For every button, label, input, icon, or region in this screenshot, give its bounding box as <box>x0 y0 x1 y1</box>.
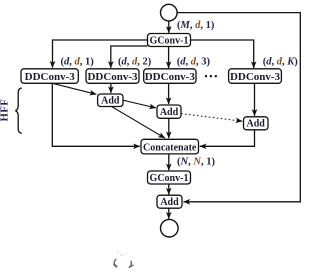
block DDConv-3 branch3 <box>144 69 196 84</box>
wire GConv-1 to DDConv-3 K2 <box>111 46 148 68</box>
wire input circle to GConv-1 <box>168 21 170 33</box>
block Add2 <box>157 105 181 118</box>
node output circle <box>161 219 179 237</box>
svg-text:(M, d, 1): (M, d, 1) <box>177 20 215 31</box>
svg-text:DDConv-3: DDConv-3 <box>25 71 76 83</box>
dots ellipsis <box>205 75 217 77</box>
artifact faint marks bottom <box>114 252 133 268</box>
wire GConv-1 to Add4 <box>168 184 170 194</box>
svg-text:Add: Add <box>101 96 120 107</box>
svg-text:GConv-1: GConv-1 <box>150 173 189 184</box>
svg-text:GConv-1: GConv-1 <box>150 36 189 47</box>
svg-text:(d, d, 1): (d, d, 1) <box>61 56 95 67</box>
wire Add1 diagonal to Concatenate <box>112 107 165 139</box>
block Add4 <box>157 195 182 208</box>
wire Add4 to output circle <box>168 208 170 218</box>
block GConv-1 (top) <box>148 34 191 47</box>
block GConv-1 (bottom) <box>148 171 191 184</box>
wire residual feedback right <box>177 13 300 202</box>
wire Add3 to Concatenate right <box>200 130 255 147</box>
svg-text:DDConv-3: DDConv-3 <box>87 71 138 83</box>
node input circle <box>161 4 178 21</box>
wire GConv-1 to DDConv-3 K1 <box>53 40 148 68</box>
svg-text:DDConv-3: DDConv-3 <box>145 71 196 83</box>
svg-text:DDConv-3: DDConv-3 <box>230 71 281 83</box>
wire branch1 diagonal to Add1 <box>52 83 96 94</box>
wire branch1 down to Concatenate <box>52 83 140 146</box>
block DDConv-3 branchK <box>229 69 282 84</box>
wire Concatenate to GConv-1 bottom <box>168 154 170 170</box>
block Concatenate <box>141 139 199 154</box>
svg-text:(N, N, 1): (N, N, 1) <box>177 156 215 167</box>
wire Add1 diagonal to Add2 <box>123 100 156 108</box>
svg-text:Add: Add <box>160 107 179 118</box>
wire branch3 to Add2 <box>168 83 170 104</box>
svg-text:Add: Add <box>247 119 266 130</box>
svg-text:Concatenate: Concatenate <box>143 142 197 153</box>
wire branchK to Add3 <box>254 83 256 116</box>
svg-text:(d, d, K): (d, d, K) <box>263 56 299 67</box>
wire Add2 to Concatenate <box>168 118 170 138</box>
svg-text:(d, d, 3): (d, d, 3) <box>177 56 211 67</box>
svg-text:Add: Add <box>160 197 179 208</box>
block Add1 <box>98 94 123 107</box>
svg-text:(d, d, 2): (d, d, 2) <box>118 56 152 67</box>
block Add3 <box>244 117 269 130</box>
wire branch2 to Add1 <box>110 83 112 93</box>
wire Add2 dotted to Add3 <box>181 114 242 122</box>
block DDConv-3 branch1 <box>21 69 78 84</box>
brace HFF <box>15 88 21 133</box>
svg-text:HFF: HFF <box>0 99 10 122</box>
wire GConv-1 to DDConv-3 KK <box>191 40 254 68</box>
block DDConv-3 branch2 <box>86 69 139 84</box>
wire GConv-1 to DDConv-3 K3 <box>168 47 170 69</box>
